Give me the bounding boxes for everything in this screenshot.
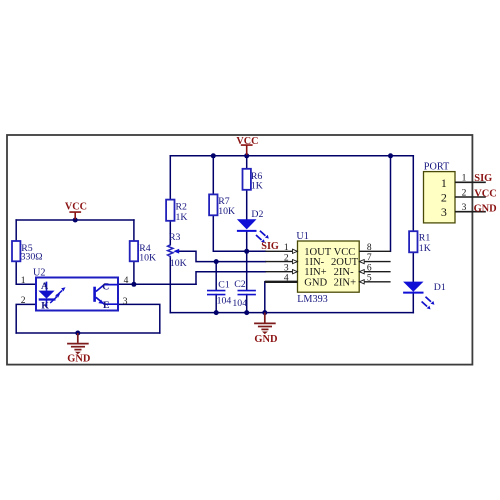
wire: R7 bottom to 1OUT row (SIG net) [213, 215, 265, 251]
svg-text:2: 2 [441, 191, 447, 205]
svg-text:C1: C1 [218, 279, 230, 290]
svg-text:GND: GND [67, 354, 90, 365]
junction: VCC over U2 [73, 218, 78, 223]
wire: left loop top rail [16, 219, 134, 221]
U1 pin 5 [359, 281, 390, 283]
svg-text:10K: 10K [139, 252, 156, 263]
optocoupler U2 body [36, 278, 118, 311]
U1 pin 2 arrow [293, 260, 298, 264]
svg-text:2: 2 [284, 254, 289, 264]
svg-text:1: 1 [462, 174, 467, 184]
wire: U2 pin 4 net going right [118, 283, 196, 285]
capacitor C1 [207, 291, 225, 295]
wire: C1 bottom lead [215, 295, 217, 313]
svg-text:330Ω: 330Ω [21, 252, 43, 263]
resistor R2 [166, 200, 174, 221]
svg-text:6: 6 [367, 263, 372, 273]
ground symbol (middle) [254, 313, 276, 334]
wire: bus down to R7 top [212, 156, 214, 195]
junction: C2 on ground bus [244, 310, 249, 315]
svg-text:GND: GND [304, 277, 327, 288]
junction: GND symbol tap on ground bus [262, 310, 267, 315]
junction: C1 tap on 1IN- net [214, 259, 219, 264]
resistor R6 [243, 169, 251, 190]
svg-text:C: C [102, 282, 109, 293]
U2 emission arrow 1 [56, 287, 66, 296]
PORT pin 1 [455, 181, 486, 183]
svg-text:1: 1 [21, 276, 26, 286]
wire: U1 pin8 up to VCC bus [390, 156, 392, 252]
wire: bus down to R6 top [246, 156, 248, 169]
D1 emission arrow 2 [422, 302, 431, 310]
svg-text:1K: 1K [251, 181, 263, 192]
U1 pin 5 arrow [359, 280, 364, 284]
wire: R4 bottom to node at pin 4 [133, 261, 135, 284]
wire: VCC rail down to R5 top [15, 220, 17, 241]
wire: R1 bottom to D1 anode [412, 252, 414, 281]
wire: D2 cathode down through SIG node to C2 top [246, 231, 248, 290]
wire: U2 pin 2 down to bottom run [16, 304, 36, 333]
svg-text:3: 3 [462, 203, 467, 213]
junction: R4 / U2 pin4 node [131, 282, 136, 287]
svg-text:VCC: VCC [65, 201, 87, 212]
junction: bus / pin8 drop [388, 153, 393, 158]
U1 pin 1 arrow [293, 249, 298, 253]
svg-text:GND: GND [254, 334, 277, 345]
wire: bottom ground run of left loop [16, 332, 160, 334]
capacitor C2 [238, 291, 256, 295]
junction: SIG node at D2 cathode [244, 249, 249, 254]
wire: bottom run up to U2 pin 3 [118, 304, 160, 333]
U1 pin 1 [265, 250, 297, 252]
wire: U1 GND pin down to ground bus [264, 282, 266, 313]
svg-text:E: E [103, 300, 110, 311]
svg-text:2: 2 [21, 296, 26, 306]
svg-text:4: 4 [124, 276, 129, 286]
LED D1 [403, 282, 423, 293]
svg-text:3: 3 [284, 264, 289, 274]
U1 pin 7 arrow [359, 260, 364, 264]
resistor R1 [409, 231, 417, 252]
svg-text:PORT: PORT [424, 161, 450, 172]
junction: bus / VCC flag [244, 153, 249, 158]
svg-text:1: 1 [284, 243, 289, 253]
wire: bus right corner down to R1 [412, 156, 414, 231]
svg-text:A: A [41, 281, 48, 292]
svg-text:1K: 1K [419, 243, 431, 254]
wire: pin4 net up to U1 1IN+ row [196, 272, 265, 285]
svg-text:1: 1 [441, 176, 447, 190]
wire: R5 bottom to U2 pin 1 [16, 261, 36, 284]
svg-text:5: 5 [367, 273, 372, 283]
U2 phototransistor [93, 285, 118, 305]
wire: D1 cathode to ground bus [412, 293, 414, 313]
resistor R5 [12, 241, 20, 261]
U1 pin 4 (GND, thick) [265, 281, 298, 283]
wire: R3 bottom to ground bus [169, 258, 171, 313]
U2 emission arrow 2 [50, 294, 60, 303]
U1 pin 3 arrow [293, 270, 298, 274]
U2 internal LED [38, 282, 55, 307]
svg-text:10K: 10K [218, 206, 235, 217]
PORT pin 2 [455, 196, 486, 198]
svg-text:D1: D1 [434, 282, 446, 293]
U1 pin 6 [359, 271, 390, 273]
PORT pin 3 [455, 211, 486, 213]
junction: left GND tap [75, 331, 80, 336]
ground symbol (left) [67, 333, 89, 354]
junction: bus / R7 [211, 153, 216, 158]
LED D2 [237, 219, 257, 231]
U1 pin 2 [265, 261, 297, 263]
D1 emission arrow 1 [426, 297, 435, 305]
svg-text:1K: 1K [176, 212, 188, 223]
junction: C1 on ground bus [214, 310, 219, 315]
svg-text:104: 104 [217, 296, 232, 307]
svg-text:7: 7 [367, 253, 372, 263]
svg-text:R3: R3 [169, 232, 181, 243]
power flag VCC (top) [236, 136, 258, 155]
svg-text:U2: U2 [33, 268, 45, 279]
svg-text:2IN+: 2IN+ [334, 277, 356, 288]
U1 pin 3 [265, 271, 297, 273]
U1 pin 8 [359, 250, 390, 252]
D2 emission arrow 2 [256, 235, 265, 243]
svg-text:10K: 10K [170, 258, 187, 269]
potentiometer R3 wiper arrow [173, 249, 179, 254]
D2 emission arrow 1 [260, 231, 269, 239]
U1 pin 7 [359, 261, 390, 263]
potentiometer R3 element [168, 245, 173, 258]
wire: ground bus [170, 312, 413, 314]
wire: R6 bottom to D2 anode [246, 190, 248, 220]
wire: R2 bottom to R3 top [169, 221, 171, 245]
wire: bus down to R2 top [169, 156, 171, 200]
wire: C2 bottom lead [246, 295, 248, 313]
svg-text:GND: GND [474, 204, 497, 215]
svg-text:VCC: VCC [474, 189, 497, 200]
svg-text:K: K [41, 300, 49, 311]
svg-text:SIG: SIG [474, 173, 492, 184]
connector PORT body [424, 172, 456, 223]
wire: C1 top lead [215, 262, 217, 291]
wire: R3 wiper to U1 1IN- row [179, 251, 266, 261]
U1 pin 6 arrow [359, 270, 364, 274]
svg-text:C2: C2 [234, 279, 246, 290]
svg-text:2: 2 [462, 188, 467, 198]
svg-text:104: 104 [232, 298, 247, 309]
op-amp U1 LM393 body [298, 241, 360, 292]
svg-text:4: 4 [284, 274, 289, 284]
power flag VCC (left) [65, 201, 87, 219]
svg-text:3: 3 [123, 297, 128, 307]
svg-text:SIG: SIG [261, 241, 279, 252]
svg-text:3: 3 [441, 205, 447, 219]
wire: top VCC bus [170, 155, 413, 157]
svg-text:U1: U1 [296, 231, 308, 242]
svg-text:D2: D2 [251, 209, 263, 220]
resistor R4 [130, 241, 138, 261]
wire: rail down to R4 top [133, 220, 135, 241]
resistor R7 [209, 194, 217, 215]
svg-text:LM393: LM393 [297, 294, 328, 305]
svg-text:8: 8 [367, 243, 372, 253]
